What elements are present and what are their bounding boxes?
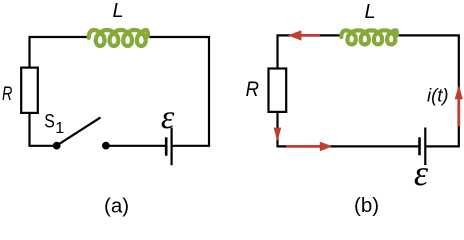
current arrow (left side of circuit b, pointing down) <box>274 128 282 142</box>
resistor R (circuit a) <box>21 68 38 113</box>
wire: circuit (a) from resistor bottom down to bottom-left corner, right to switch pivot <box>30 113 54 146</box>
svg-text:ε: ε <box>414 153 429 193</box>
inductor L coil (circuit a) <box>89 30 148 46</box>
switch S1 pivot node (dot) <box>53 142 61 150</box>
wire: circuit (b) bottom wire from current arrow to battery negative plate <box>331 145 419 147</box>
current arrow (top of circuit b, pointing left) <box>301 34 320 37</box>
wire: circuit (a) bottom wire from switch contact to battery negative plate <box>106 145 165 147</box>
wire: circuit (a) top wire from inductor left end to top-left corner, down to resistor top <box>30 37 88 68</box>
switch S1 contact node (dot) <box>102 142 110 150</box>
svg-text:(a): (a) <box>104 195 129 218</box>
current arrow (bottom of circuit b, pointing right) <box>286 145 320 148</box>
svg-text:L: L <box>365 1 376 23</box>
svg-text:R: R <box>2 84 13 105</box>
svg-text:i(t): i(t) <box>427 85 449 106</box>
battery (a) negative plate (short) <box>165 137 168 155</box>
svg-text:ε: ε <box>161 99 175 136</box>
inductor L coil (circuit b) <box>341 30 397 44</box>
wire: circuit (b) top wire from inductor left end to top-left corner, down to resistor top <box>278 35 341 68</box>
current arrow i(t) (right side of circuit b, pointing up) <box>457 99 460 127</box>
wire: circuit (a) from battery positive plate along bottom to bottom-right corner, up the right side, to inductor right end <box>148 37 209 146</box>
svg-text:(b): (b) <box>354 194 379 217</box>
battery (b) positive plate (long) <box>424 128 426 166</box>
wire: circuit (b) from resistor bottom down to bottom-left corner and right <box>278 112 332 146</box>
resistor R (circuit b) <box>269 69 287 112</box>
battery (a) positive plate (long) <box>171 128 173 166</box>
battery (b) negative plate (short) <box>418 137 421 155</box>
svg-text:L: L <box>113 0 124 22</box>
switch S1 blade (open) <box>57 117 101 145</box>
wire: circuit (b) from battery positive plate to bottom-right corner, up the right side to top-right corner, to inductor right end <box>397 35 459 146</box>
svg-text:R: R <box>246 77 259 101</box>
